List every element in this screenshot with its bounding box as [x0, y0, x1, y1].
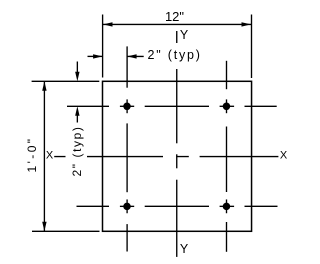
svg-text:X: X	[280, 149, 288, 161]
svg-text:2" (typ): 2" (typ)	[148, 48, 202, 62]
svg-text:2" (typ): 2" (typ)	[70, 125, 84, 176]
svg-text:Y: Y	[180, 242, 189, 256]
svg-text:Y: Y	[180, 28, 189, 42]
svg-text:12": 12"	[165, 9, 184, 24]
svg-text:1'-0": 1'-0"	[25, 137, 39, 173]
svg-text:X: X	[46, 149, 54, 161]
